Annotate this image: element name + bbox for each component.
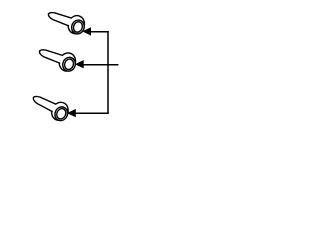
- callout wire vertical: [107, 31, 109, 114]
- callout wire 1 (top horizontal): [91, 31, 109, 33]
- callout wire 3 (bottom horizontal): [75, 112, 109, 114]
- arrow 3: [67, 109, 76, 117]
- screw 1 (top): [45, 6, 87, 36]
- arrow 2: [75, 60, 84, 68]
- arrow 1: [82, 27, 91, 35]
- callout wire 2 (middle horizontal): [82, 64, 118, 66]
- screw 2 (middle): [36, 43, 78, 73]
- screw 3 (bottom): [29, 90, 72, 123]
